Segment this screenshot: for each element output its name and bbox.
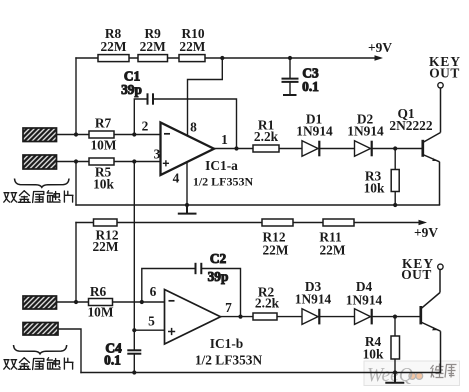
svg-text:22M: 22M	[92, 239, 118, 254]
wire ground line (upper section)	[76, 204, 440, 206]
wire R5 node down to ground line	[75, 162, 77, 206]
transistor Q2	[421, 264, 443, 372]
svg-text:OUT: OUT	[429, 66, 460, 81]
svg-text:2.2k: 2.2k	[255, 296, 280, 311]
brace (lower bimetal pads)	[14, 345, 67, 354]
node R6 input junction	[74, 300, 78, 304]
svg-text:22M: 22M	[140, 39, 166, 54]
svg-text:7: 7	[225, 300, 232, 315]
node R4 top junction	[393, 315, 397, 319]
resistor R3 leads	[394, 149, 396, 206]
diode D4	[346, 279, 383, 324]
svg-text:1N914: 1N914	[347, 124, 384, 139]
node R4 bottom junction	[393, 370, 397, 374]
svg-text:C2: C2	[210, 251, 227, 266]
diode D1	[296, 112, 333, 157]
node pin8 tap on rail	[220, 56, 224, 60]
svg-text:5: 5	[148, 314, 155, 329]
capacitor C3	[282, 58, 319, 95]
svg-text:6: 6	[150, 284, 157, 299]
node R3 bottom junction	[393, 203, 397, 207]
svg-text:+9V: +9V	[414, 225, 438, 240]
svg-text:IC1-b: IC1-b	[210, 336, 243, 351]
wire op-amp output to R1	[214, 148, 253, 150]
resistor R11	[319, 219, 354, 258]
svg-text:22M: 22M	[179, 39, 205, 54]
wire C1 feedback left leg	[134, 99, 147, 135]
label bimetal contact strip (upper)	[4, 191, 73, 203]
capacitor C4	[104, 341, 141, 368]
svg-text:8: 8	[190, 120, 197, 135]
resistor R9	[138, 26, 168, 62]
wire pad1 to R7	[57, 134, 90, 136]
resistor R2	[253, 285, 280, 321]
svg-text:R6: R6	[90, 284, 107, 299]
svg-text:39p: 39p	[121, 82, 142, 97]
wire R6 to pin 6	[113, 301, 165, 303]
capacitor C1	[121, 69, 153, 105]
wire pin 5 stub	[134, 329, 164, 331]
node R5 input junction	[74, 159, 78, 163]
resistor R12 (left)	[92, 219, 118, 254]
svg-text:0.1: 0.1	[104, 353, 121, 368]
wire C4 leads	[133, 330, 135, 372]
wire C2 feedback right leg to output	[202, 269, 241, 317]
wire left bias vertical (rail to R7 node)	[75, 58, 77, 135]
wire +9V top rail	[76, 57, 376, 59]
node C2 tap at pin 6	[140, 300, 144, 304]
wire C2 feedback left leg	[142, 269, 195, 303]
wire R7 to pin 2	[114, 134, 161, 136]
diode D2	[347, 112, 384, 157]
wire pin 8 supply branch	[188, 58, 223, 137]
svg-text:+9V: +9V	[368, 40, 392, 55]
touch pad 2	[23, 155, 57, 169]
op-amp U1 IC1-b	[165, 290, 263, 368]
svg-text:1/2 LF353N: 1/2 LF353N	[195, 353, 263, 368]
node C3 tap on rail	[288, 56, 292, 60]
svg-text:2: 2	[142, 119, 149, 134]
transistor Q1 2N2222	[389, 83, 443, 205]
wire D4 to Q2 base	[373, 316, 420, 318]
net +9V (lower arrow)	[414, 220, 438, 240]
node output feedback junction	[234, 146, 238, 150]
node R7 input junction	[74, 132, 78, 136]
wire pad4 down to bottom line	[58, 329, 81, 373]
svg-text:10k: 10k	[363, 347, 384, 362]
svg-text:4: 4	[173, 171, 180, 186]
resistor R4 leads	[394, 317, 396, 373]
svg-text:22M: 22M	[100, 39, 126, 54]
wire pad3 to R6	[57, 301, 89, 303]
wire +9V lower rail	[76, 222, 420, 224]
net +9V (top arrow)	[368, 40, 392, 61]
svg-text:10k: 10k	[93, 177, 114, 192]
svg-text:1N914: 1N914	[295, 292, 332, 307]
wire R5 to pin 3	[114, 161, 161, 163]
wire pin 4 to ground	[186, 163, 188, 206]
wire pin3 node down to pin5 node	[133, 162, 135, 331]
capacitor C2	[196, 251, 229, 284]
svg-text:IC1-a: IC1-a	[205, 158, 238, 173]
resistor R6	[87, 284, 113, 320]
svg-text:10M: 10M	[90, 138, 116, 153]
resistor R8	[98, 26, 129, 62]
resistor R1	[253, 118, 279, 153]
wire op-amp output to R2	[221, 316, 254, 318]
svg-text:10k: 10k	[364, 181, 385, 196]
svg-text:39p: 39p	[208, 269, 229, 284]
svg-text:OUT: OUT	[401, 267, 432, 282]
svg-text:3: 3	[154, 147, 161, 162]
wire R2 to D3	[277, 316, 302, 318]
touch pad 3	[23, 296, 57, 309]
svg-text:2N2222: 2N2222	[389, 118, 432, 133]
svg-text:1N914: 1N914	[346, 293, 383, 308]
svg-text:10M: 10M	[87, 305, 113, 320]
watermark WeeQoo	[364, 361, 460, 386]
node C1 tap at pin 2	[132, 132, 136, 136]
ground symbol (below R4)	[386, 373, 403, 383]
wire pad2 to R5	[57, 161, 90, 163]
svg-text:1: 1	[221, 132, 228, 147]
node pin 5 junction	[132, 328, 136, 332]
resistor R3	[364, 169, 400, 196]
wire D3 to D4	[320, 316, 354, 318]
svg-text:R7: R7	[95, 116, 112, 131]
touch pad 1	[23, 128, 57, 142]
label KEY OUT (lower)	[401, 256, 434, 282]
resistor R4	[363, 334, 400, 362]
svg-text:2.2k: 2.2k	[254, 129, 279, 144]
svg-text:22M: 22M	[319, 243, 345, 258]
svg-text:1/2 LF353N: 1/2 LF353N	[193, 175, 254, 189]
wire R1 to D1	[279, 148, 302, 150]
touch pad 4	[23, 323, 58, 336]
resistor R7	[89, 116, 117, 153]
label KEY OUT (upper)	[429, 54, 461, 81]
svg-text:0.1: 0.1	[302, 79, 319, 94]
svg-text:1N914: 1N914	[296, 124, 333, 139]
node output2 feedback junction	[238, 315, 242, 319]
ground symbol (IC1-a pin 4)	[179, 205, 196, 214]
node pin4 ground junction	[185, 203, 189, 207]
wire bottom ground line	[81, 372, 441, 374]
wire lower rail left leg down to R6 node	[75, 223, 77, 303]
resistor R10	[179, 26, 206, 62]
wire C1 feedback right leg to output	[153, 99, 236, 149]
wire D1 to D2	[320, 148, 354, 150]
diode D3	[295, 279, 332, 324]
node R3 top junction	[393, 146, 397, 150]
node pin 3 vertical tap	[132, 159, 136, 163]
label bimetal contact strip (lower)	[4, 358, 73, 370]
node C4 bottom junction	[132, 370, 136, 374]
svg-text:22M: 22M	[262, 243, 288, 258]
op-amp U1 IC1-a	[161, 123, 254, 189]
brace (upper bimetal pads)	[15, 179, 70, 188]
wire D2 to Q1 base	[373, 148, 422, 150]
resistor R12 (middle)	[262, 219, 293, 258]
resistor R5	[89, 158, 114, 192]
